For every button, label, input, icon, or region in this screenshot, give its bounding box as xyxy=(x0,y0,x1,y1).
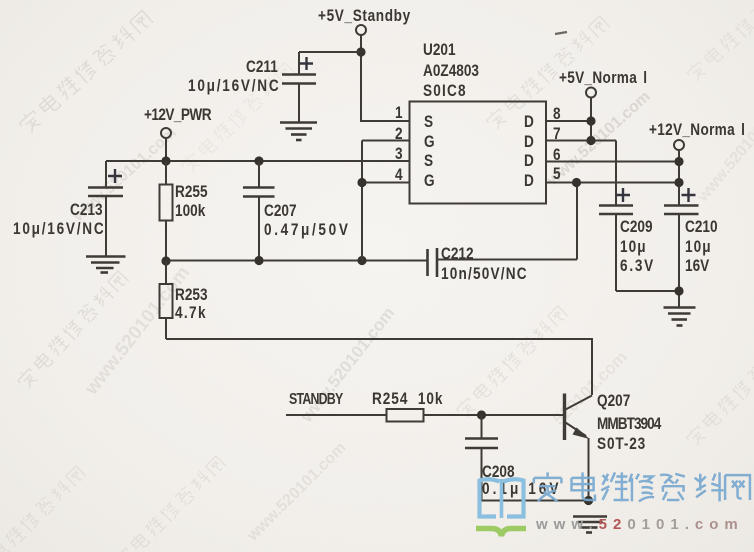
faint watermark CJK bottom-left corner xyxy=(0,465,87,552)
label C208 xyxy=(482,463,515,480)
wire +12V bus to IC pin 3 xyxy=(106,160,409,162)
wire +12V_Normal drop through pin6 pin5 xyxy=(678,150,680,205)
label C211 xyxy=(246,58,278,75)
pin number 5 xyxy=(553,165,561,182)
junction dot gate bus / R255-R253 xyxy=(161,256,170,265)
value C212 xyxy=(441,265,528,282)
ground for C211 xyxy=(280,123,317,141)
junction dot +12V bus / R255 xyxy=(161,156,170,165)
value C210 capacitance xyxy=(685,238,712,255)
wire C211 top to +5V_Standby xyxy=(299,51,361,53)
ground for C210 xyxy=(664,308,696,326)
node +5V_Normal terminal xyxy=(586,88,596,98)
watermark logo open book icon xyxy=(480,479,524,518)
value C209 capacitance xyxy=(620,238,647,255)
junction dot gate bus / C207 xyxy=(254,256,263,265)
wire pin 7 xyxy=(546,140,616,142)
wire +5V_Normal drop xyxy=(590,98,592,141)
wire +5V_Standby vertical to pin1 xyxy=(361,35,409,121)
faint watermark CJK right edge lower xyxy=(684,333,754,447)
faint watermark CJK row top-left xyxy=(17,9,154,135)
value C208 xyxy=(482,480,562,497)
pin number 6 xyxy=(553,146,561,163)
resistor R255 xyxy=(160,161,173,261)
ground for Q207 emitter xyxy=(573,517,607,533)
pin number 3 xyxy=(395,145,403,162)
junction dot pin5 / C212 xyxy=(572,178,581,187)
label R254 with value 10k xyxy=(372,390,443,407)
label C212 xyxy=(441,245,474,262)
junction dot pin8 xyxy=(586,116,595,125)
capacitor C211 xyxy=(282,52,316,122)
junction dot pin5 right xyxy=(674,178,683,187)
wire pin2/pin4 gate vertical xyxy=(362,141,409,261)
pin number 1 xyxy=(395,104,403,121)
label C210 xyxy=(685,218,718,235)
junction dot at +5V_Standby / C211 xyxy=(356,47,365,56)
ground for C213 xyxy=(86,257,126,273)
pin name D pin7 xyxy=(524,133,534,150)
pin number 7 xyxy=(553,125,561,142)
junction dot pin7 xyxy=(586,136,595,145)
capacitor C213 xyxy=(88,161,123,256)
value C209 voltage xyxy=(620,257,655,274)
pin name D pin5 xyxy=(524,172,534,189)
junction dot base / C208 xyxy=(477,410,486,419)
resistor R254 xyxy=(387,409,424,422)
value C213 xyxy=(13,220,105,237)
label R255 xyxy=(175,183,208,200)
node +12V_PWR terminal xyxy=(161,128,171,138)
faint watermark CJK row left-middle xyxy=(16,270,130,390)
node +5V_Standby terminal xyxy=(356,25,366,35)
junction dot pin6 xyxy=(674,157,683,166)
capacitor C212 xyxy=(428,183,578,278)
wire pin 5 xyxy=(546,182,679,184)
junction dot pin4 gate xyxy=(357,178,366,187)
scan artifact dash xyxy=(555,32,567,34)
resistor R253 xyxy=(160,261,173,339)
label C213 xyxy=(70,201,103,218)
label +12V_PWR xyxy=(144,106,211,123)
label Q207 xyxy=(597,392,630,409)
watermark logo green swoosh xyxy=(476,529,526,537)
pin name S pin3 xyxy=(424,152,433,169)
label R253 xyxy=(175,286,208,303)
capacitor C210 xyxy=(664,188,699,307)
faint watermark CJK row top-right xyxy=(484,15,610,131)
pin number 8 xyxy=(553,105,561,122)
node +12V_Normal terminal xyxy=(674,140,684,150)
value U201 part A0Z4803 xyxy=(423,62,479,79)
value Q207 package SOT-23 xyxy=(597,435,646,452)
faint watermark CJK bottom-left second xyxy=(112,455,226,552)
junction dot C209/C210 ground xyxy=(674,286,683,295)
net label STANDBY xyxy=(289,392,342,408)
label +5V_Standby xyxy=(318,7,411,24)
pin name G pin4 xyxy=(424,172,435,189)
label U201 xyxy=(423,41,456,58)
wire STANDBY to base xyxy=(286,414,564,416)
faint watermark CJK top-right corner xyxy=(685,0,754,83)
junction dot gate bus / pin2-pin4 vertical xyxy=(357,256,366,265)
wire R253 to Q207 collector xyxy=(166,339,592,395)
pin number 2 xyxy=(395,125,403,142)
faint watermark CJK row upper-middle xyxy=(180,62,296,175)
watermark brand CJK characters blue xyxy=(534,472,750,501)
value Q207 part MMBT3904 xyxy=(597,415,660,432)
pin name S pin1 xyxy=(424,113,433,130)
paper texture xyxy=(0,0,1,1)
wire +12V_PWR drop xyxy=(165,138,167,161)
value R255 xyxy=(175,202,205,219)
capacitor C207 xyxy=(243,161,275,261)
pin name D pin8 xyxy=(524,113,534,130)
transistor Q207 xyxy=(565,394,593,501)
label +5V_Normal xyxy=(559,69,649,86)
value R253 xyxy=(175,304,207,321)
junction dot emitter / C208 ground xyxy=(584,496,593,505)
faint watermark CJK row center-right xyxy=(454,305,568,419)
value C211 xyxy=(188,77,280,94)
value C207 xyxy=(264,221,351,238)
capacitor C209 xyxy=(599,141,679,292)
IC U201 box xyxy=(410,102,547,204)
wire gate bus bottom xyxy=(166,260,427,262)
value C210 voltage xyxy=(685,257,709,274)
label C209 xyxy=(620,218,653,235)
wire pin 6 xyxy=(546,161,679,163)
pin name D pin6 xyxy=(524,152,534,169)
label C207 xyxy=(264,202,297,219)
pin number 4 xyxy=(395,166,403,183)
label +12V_Normal xyxy=(649,121,747,138)
pin name G pin2 xyxy=(424,133,435,150)
wire pin 8 xyxy=(546,120,592,122)
capacitor C208 xyxy=(465,415,589,501)
value U201 package S0IC8 xyxy=(423,82,467,99)
junction dot +12V bus / C207 xyxy=(254,156,263,165)
